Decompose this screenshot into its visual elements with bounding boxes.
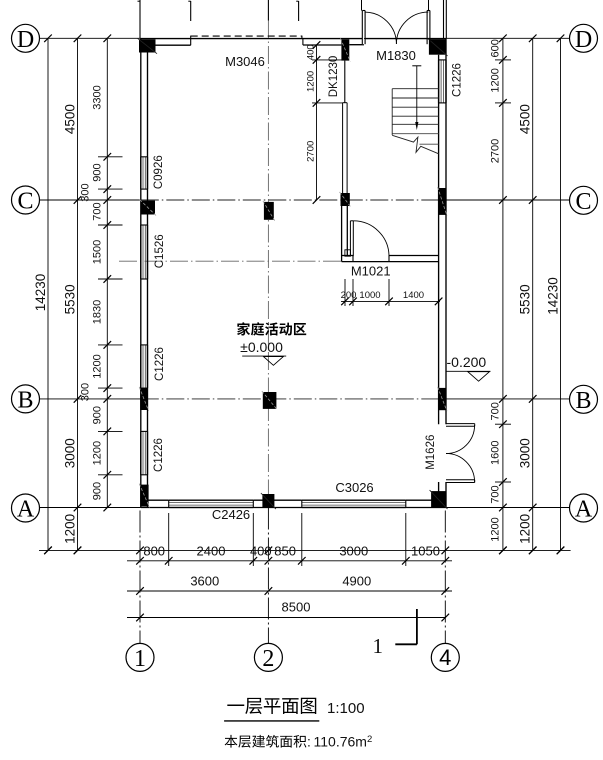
svg-text:M1021: M1021 bbox=[351, 263, 391, 278]
stair direction arrow bbox=[412, 65, 421, 67]
top exterior wall outer face along D bbox=[141, 38, 446, 40]
svg-text:1830: 1830 bbox=[91, 300, 103, 324]
svg-text:D: D bbox=[17, 27, 34, 53]
svg-text:110.76m2: 110.76m2 bbox=[314, 734, 373, 750]
column pier at C/4 bbox=[439, 188, 446, 215]
column pier at D stair wall bbox=[341, 39, 349, 60]
stair break line zigzag bbox=[392, 135, 439, 154]
stub above M1830 left jamb bbox=[361, 0, 363, 11]
svg-text:D: D bbox=[575, 27, 592, 53]
stub line above M3046 right end bbox=[298, 1, 300, 21]
top wall inner face segments bbox=[148, 44, 191, 46]
door M1626 double door leaves bbox=[446, 423, 475, 425]
stair dim extension stubs bbox=[312, 59, 342, 61]
axis line 2 vertical (grid line 2 through plan) bbox=[267, 0, 269, 21]
svg-text:300: 300 bbox=[79, 183, 91, 201]
stub line above M3046 left jamb bbox=[190, 1, 192, 21]
section mark 1 bbox=[416, 609, 418, 644]
title 一层平面图 1:100 bbox=[227, 705, 244, 707]
column pier at A/1 bbox=[140, 485, 148, 507]
window C1526 in left wall bbox=[140, 225, 142, 279]
svg-text:C1226: C1226 bbox=[154, 347, 166, 381]
bottom exterior wall outer face along A bbox=[141, 507, 446, 509]
column pier at D/1 bbox=[139, 39, 156, 52]
svg-text:C: C bbox=[17, 189, 33, 215]
bottom axis-distance dimension line 3600/4900 bbox=[127, 590, 452, 592]
door opening M3046 dashed lintel line bbox=[191, 35, 302, 37]
axis bubble C right bbox=[570, 186, 598, 214]
axis bubble A right bbox=[570, 494, 598, 522]
svg-text:4900: 4900 bbox=[342, 573, 371, 588]
svg-text:4500: 4500 bbox=[518, 104, 533, 134]
window C1226 in right wall bbox=[438, 60, 440, 103]
column pier at C stair wall bbox=[341, 193, 350, 206]
svg-text:2700: 2700 bbox=[306, 141, 317, 162]
svg-text:C3026: C3026 bbox=[335, 480, 373, 495]
column pier at B/1 bbox=[140, 388, 148, 410]
svg-text:1200: 1200 bbox=[489, 517, 501, 541]
svg-text:A: A bbox=[17, 497, 35, 523]
axis line C dash-dot bbox=[40, 199, 141, 201]
right fine dimension line bbox=[502, 38, 504, 550]
svg-text:600: 600 bbox=[489, 39, 501, 57]
window C2426 in bottom wall bbox=[169, 499, 254, 501]
axis bubble 4 bottom bbox=[431, 643, 459, 671]
axis line 4 vertical below building bbox=[444, 511, 446, 644]
svg-text:3000: 3000 bbox=[63, 438, 78, 468]
bottom fine dimension line bbox=[127, 560, 452, 562]
svg-text:1200: 1200 bbox=[518, 514, 533, 544]
svg-text:300: 300 bbox=[79, 383, 91, 401]
svg-text:C0926: C0926 bbox=[153, 155, 165, 189]
svg-text:1200: 1200 bbox=[306, 71, 317, 92]
svg-text:900: 900 bbox=[91, 482, 103, 500]
svg-text:M3046: M3046 bbox=[225, 54, 265, 69]
svg-text:3000: 3000 bbox=[339, 543, 368, 558]
stair treads bbox=[392, 88, 438, 90]
right overall dimension line 14230 bbox=[560, 38, 562, 550]
left middle dimension line (axis distances) bbox=[77, 38, 79, 550]
svg-text:1200: 1200 bbox=[489, 68, 501, 92]
svg-text:5530: 5530 bbox=[63, 284, 78, 314]
svg-text:B: B bbox=[575, 388, 591, 414]
door M1830 swing arcs bbox=[365, 12, 397, 44]
svg-text:1200: 1200 bbox=[91, 441, 103, 465]
wall stub above D at axis 1 bbox=[139, 0, 141, 38]
svg-text:14230: 14230 bbox=[33, 274, 48, 312]
svg-text:1200: 1200 bbox=[91, 354, 103, 378]
door sill line at M1830 bbox=[364, 38, 428, 40]
axis line D (horizontal grid line D) bbox=[40, 37, 141, 39]
axis bubble D right bbox=[570, 24, 598, 52]
svg-text:C: C bbox=[575, 189, 591, 215]
axis bubble A left bbox=[12, 494, 40, 522]
axis line A bbox=[40, 507, 141, 509]
left fine dimension line bbox=[106, 38, 108, 507]
svg-text:1200: 1200 bbox=[63, 514, 78, 544]
left exterior wall inner face bbox=[147, 53, 149, 508]
svg-text:3600: 3600 bbox=[190, 573, 219, 588]
stair tread below break bbox=[420, 143, 439, 145]
svg-text:700: 700 bbox=[489, 402, 501, 420]
svg-text:2400: 2400 bbox=[197, 543, 226, 558]
left exterior wall outer face bbox=[140, 38, 142, 507]
left extension stubs at window edges bbox=[98, 156, 123, 158]
svg-text:5530: 5530 bbox=[518, 284, 533, 314]
svg-text:A: A bbox=[575, 497, 593, 523]
svg-text:M1626: M1626 bbox=[425, 435, 437, 470]
svg-text:900: 900 bbox=[91, 406, 103, 424]
axis bubble C left bbox=[12, 186, 40, 214]
M1021 dimension line 200/1000/1400 bbox=[341, 300, 440, 302]
door M1830 double entrance door leaves bbox=[362, 11, 365, 45]
axis bubble B right bbox=[570, 385, 598, 413]
window C1226 in left wall (upper) bbox=[140, 345, 142, 388]
window C0926 in left wall bbox=[140, 157, 142, 189]
svg-text:M1830: M1830 bbox=[376, 48, 416, 63]
window C1226 in left wall (lower) bbox=[140, 431, 142, 474]
bottom extension stubs at window edges bbox=[168, 513, 170, 566]
axis bubble D left bbox=[12, 24, 40, 52]
svg-text:C2426: C2426 bbox=[212, 507, 250, 522]
stub above M1830 right jamb bbox=[428, 0, 430, 11]
column pier at A/4 bbox=[431, 491, 446, 508]
svg-text:700: 700 bbox=[91, 202, 103, 220]
subtitle 本层建筑面积: 110.76m2 bbox=[225, 735, 238, 748]
column pier at A/2 bbox=[262, 494, 274, 508]
column pier at C/1 bbox=[141, 201, 155, 215]
svg-text:1400: 1400 bbox=[403, 290, 424, 301]
svg-text:1600: 1600 bbox=[489, 440, 501, 464]
svg-text:1: 1 bbox=[134, 646, 146, 672]
M3046 jamb right + step bbox=[301, 36, 303, 39]
column pier at C/2 bbox=[264, 202, 274, 220]
window C3026 in bottom wall bbox=[302, 499, 406, 501]
svg-text:4500: 4500 bbox=[63, 104, 78, 134]
svg-text:800: 800 bbox=[143, 543, 165, 558]
stair area dimension line 400/1200/2700 bbox=[316, 45, 318, 200]
svg-text:200: 200 bbox=[341, 290, 357, 301]
stair flight left edge bbox=[391, 89, 393, 135]
svg-text:B: B bbox=[17, 387, 33, 413]
svg-text:1000: 1000 bbox=[359, 290, 380, 301]
interior wall with door M1021 top face bbox=[342, 255, 353, 257]
axis bubble 1 bottom bbox=[126, 643, 154, 671]
left overall dimension line 14230 bbox=[47, 38, 49, 550]
bottom terminator line 1200 below A bbox=[39, 549, 571, 551]
svg-text:3000: 3000 bbox=[518, 438, 533, 468]
M3046 jamb left bbox=[190, 36, 192, 46]
svg-text:14230: 14230 bbox=[546, 277, 561, 315]
svg-text::: : bbox=[307, 735, 311, 750]
right exterior wall inner face bbox=[438, 55, 440, 425]
svg-text:2700: 2700 bbox=[489, 139, 501, 163]
svg-text:400: 400 bbox=[306, 44, 317, 60]
door M1021 frame mark bbox=[345, 250, 351, 256]
column pier at D/4 bbox=[429, 39, 446, 55]
svg-text:-0.200: -0.200 bbox=[447, 354, 487, 370]
opening DK1230 single line in stair west wall bbox=[344, 61, 346, 103]
svg-text:4: 4 bbox=[439, 645, 451, 670]
stair hall west wall (double line) bbox=[341, 206, 343, 262]
svg-text:850: 850 bbox=[274, 543, 296, 558]
axis line 1 vertical below building bbox=[139, 511, 141, 644]
M1021 door jambs bbox=[352, 256, 354, 262]
column pier at B/2 bbox=[263, 392, 277, 409]
right wall stub above D bbox=[443, 0, 445, 38]
svg-text:1050: 1050 bbox=[411, 543, 440, 558]
bottom overall dimension line 8500 bbox=[127, 617, 446, 619]
svg-text:900: 900 bbox=[91, 163, 103, 181]
svg-text:±0.000: ±0.000 bbox=[240, 339, 283, 355]
interior wall with door M1021 bottom face bbox=[342, 261, 439, 263]
right exterior wall outer face (interrupted at door M1626) bbox=[445, 38, 447, 424]
svg-text:700: 700 bbox=[489, 485, 501, 503]
svg-text:C1226: C1226 bbox=[452, 63, 464, 97]
svg-text:C1226: C1226 bbox=[153, 438, 165, 472]
axis bubble 2 bottom bbox=[254, 643, 282, 671]
right middle dimension line (axis distances) bbox=[532, 38, 534, 550]
svg-text:3300: 3300 bbox=[91, 85, 103, 109]
axis bubble B left bbox=[12, 385, 40, 413]
door M1021 swing arc bbox=[353, 221, 389, 257]
svg-text:2: 2 bbox=[262, 646, 274, 672]
right extension stubs bbox=[495, 59, 511, 61]
svg-text:DK1230: DK1230 bbox=[328, 56, 340, 98]
reference dash-dot line at interior wall level y=261 bbox=[119, 260, 342, 262]
svg-text:8500: 8500 bbox=[282, 600, 311, 615]
svg-text:1:100: 1:100 bbox=[327, 700, 365, 717]
svg-text:1: 1 bbox=[372, 634, 383, 658]
bottom wall inner face segments bbox=[148, 499, 169, 501]
svg-text:C1526: C1526 bbox=[154, 234, 166, 268]
axis line B dash-dot bbox=[40, 398, 141, 400]
room label 家庭活动区 (family activity area) bbox=[237, 322, 250, 335]
door M1626 swing arcs bbox=[446, 425, 475, 454]
M1021 dimension extension lines bbox=[344, 279, 346, 306]
svg-text:1500: 1500 bbox=[91, 240, 103, 264]
stair hall west thin wall upper part bbox=[342, 103, 344, 193]
door M1021 leaf bbox=[349, 221, 351, 256]
column pier at B/4 bbox=[439, 388, 446, 410]
